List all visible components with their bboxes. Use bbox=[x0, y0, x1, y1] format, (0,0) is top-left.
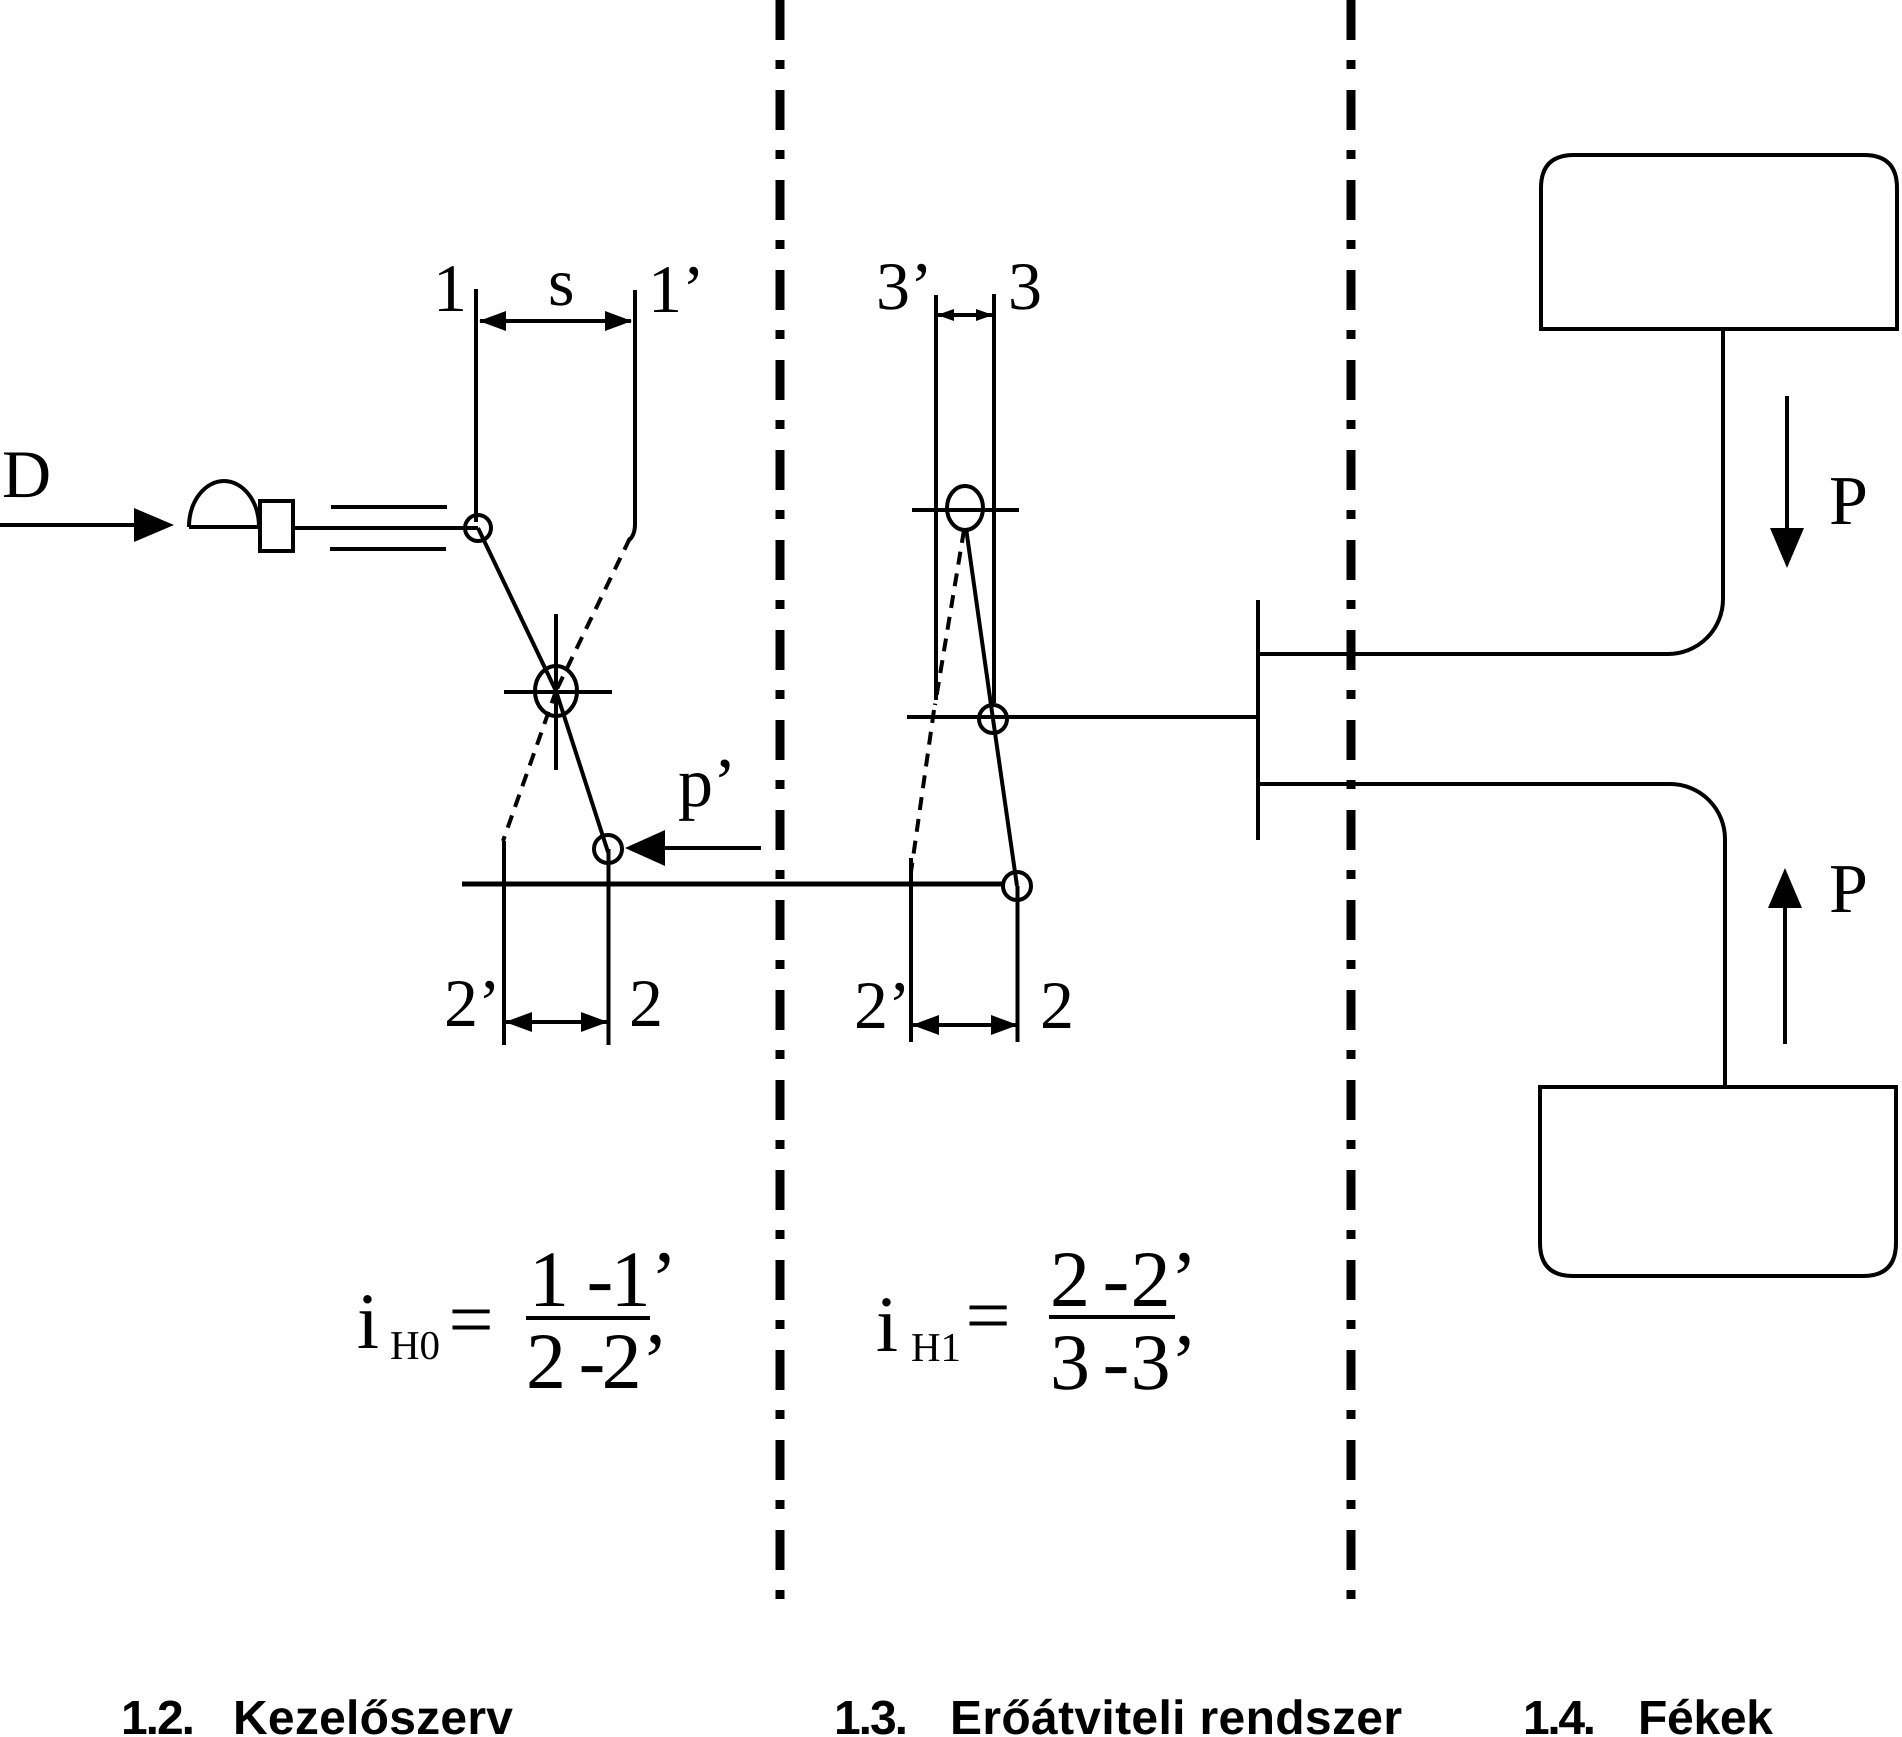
svg-text:P: P bbox=[1829, 851, 1868, 928]
svg-text:3: 3 bbox=[1050, 1319, 1090, 1407]
svg-text:3’: 3’ bbox=[1131, 1319, 1198, 1407]
push rod bbox=[294, 526, 478, 530]
svg-text:D: D bbox=[2, 436, 51, 512]
svg-text:i: i bbox=[357, 1278, 379, 1366]
caption 1.4. Fekek bbox=[1523, 1692, 1773, 1737]
svg-text:2’: 2’ bbox=[602, 1318, 669, 1406]
lower pivot circle bbox=[594, 835, 622, 863]
svg-text:2’: 2’ bbox=[1131, 1236, 1198, 1324]
svg-text:Erőátviteli rendszer: Erőátviteli rendszer bbox=[950, 1692, 1402, 1737]
svg-text:2’: 2’ bbox=[444, 965, 501, 1041]
svg-text:-: - bbox=[587, 1236, 614, 1324]
svg-text:s: s bbox=[548, 244, 574, 320]
pivot circle at rod end bbox=[465, 515, 491, 541]
caption 1.3. Eroatviteli rendszer bbox=[834, 1692, 1402, 1737]
bottom brake shoe bbox=[1540, 1087, 1896, 1276]
svg-text:1: 1 bbox=[433, 250, 467, 326]
svg-text:1: 1 bbox=[529, 1236, 569, 1324]
dimension arrow 2'-2 (left) bbox=[506, 1020, 607, 1024]
axle top arm bbox=[1258, 329, 1723, 654]
svg-text:1.4.: 1.4. bbox=[1523, 1692, 1596, 1737]
section divider 2 (dash-dot) bbox=[1347, 0, 1356, 1605]
axle bracket vertical bbox=[1256, 600, 1260, 840]
input force arrow D bbox=[0, 523, 138, 527]
fork upper line bbox=[331, 505, 447, 509]
formula i_H0 bbox=[357, 1236, 677, 1406]
pedal block bbox=[260, 501, 293, 551]
node 2 vertical line (left section) bbox=[607, 849, 611, 1045]
lever solid upper arm bbox=[478, 528, 556, 691]
formula i_H0 fraction bar bbox=[526, 1316, 650, 1320]
middle lever dashed lower arm bbox=[911, 710, 934, 872]
svg-text:2: 2 bbox=[526, 1318, 566, 1406]
svg-text:1’: 1’ bbox=[648, 251, 705, 327]
svg-text:2: 2 bbox=[1040, 967, 1074, 1043]
middle lever solid lower arm bbox=[993, 719, 1017, 886]
brake force arrow P (bottom, up) bbox=[1783, 906, 1787, 1044]
node 2 vertical line (middle section) bbox=[1016, 886, 1020, 1042]
node 2' vertical line (middle section) bbox=[909, 858, 913, 1042]
node 1' vertical line bbox=[628, 290, 635, 541]
node 1 vertical line bbox=[474, 289, 478, 522]
pedal base chord bbox=[189, 525, 259, 529]
axle bottom arm bbox=[1258, 784, 1725, 1087]
svg-text:1.3.: 1.3. bbox=[834, 1692, 908, 1737]
svg-text:1’: 1’ bbox=[611, 1236, 678, 1324]
dimension arrow s (1 to 1') bbox=[480, 319, 631, 323]
top brake shoe bbox=[1541, 155, 1897, 329]
lever dashed lower arm (position 2') bbox=[503, 691, 556, 841]
top pivot horizontal crosshair bbox=[912, 508, 1019, 512]
node 3 vertical line bbox=[992, 294, 996, 703]
section divider 1 (dash-dot) bbox=[776, 0, 785, 1600]
svg-text:H0: H0 bbox=[390, 1322, 440, 1368]
svg-text:3’: 3’ bbox=[876, 248, 933, 324]
svg-text:1.2.: 1.2. bbox=[121, 1692, 195, 1737]
svg-text:Kezelőszerv: Kezelőszerv bbox=[233, 1692, 513, 1737]
svg-text:=: = bbox=[965, 1272, 1010, 1360]
brake force arrow P (top, down) bbox=[1785, 396, 1789, 530]
svg-text:=: = bbox=[448, 1276, 493, 1364]
svg-text:Fékek: Fékek bbox=[1638, 1692, 1773, 1737]
middle lever top pivot circle bbox=[947, 486, 983, 530]
dimension arrow 2'-2 (middle) bbox=[913, 1023, 1017, 1027]
lever dashed upper arm (position 1') bbox=[556, 538, 630, 691]
middle bottom pivot circle bbox=[1003, 872, 1031, 900]
svg-text:i: i bbox=[876, 1281, 898, 1369]
svg-text:2: 2 bbox=[1050, 1236, 1090, 1324]
middle link horizontal rod to axle bbox=[907, 715, 1258, 719]
force arrow p' bbox=[661, 846, 761, 850]
long horizontal reaction bar bbox=[462, 882, 1005, 887]
svg-text:2’: 2’ bbox=[854, 967, 911, 1043]
svg-text:3: 3 bbox=[1008, 248, 1042, 324]
middle link circle bbox=[979, 705, 1007, 733]
fulcrum horizontal crosshair bbox=[504, 690, 612, 694]
node 2' vertical line (left section) bbox=[502, 841, 506, 1045]
fulcrum vertical crosshair bbox=[554, 614, 558, 770]
middle lever dashed upper arm bbox=[935, 530, 964, 705]
lever solid lower arm bbox=[556, 691, 608, 852]
formula i_H1 bbox=[876, 1236, 1197, 1407]
node 3' vertical line bbox=[934, 295, 938, 700]
fork lower line bbox=[330, 547, 446, 551]
pedal pad (dome) bbox=[189, 481, 259, 527]
svg-text:p’: p’ bbox=[678, 745, 736, 822]
main fulcrum circle bbox=[535, 666, 577, 716]
formula i_H1 fraction bar bbox=[1049, 1315, 1175, 1319]
svg-text:2: 2 bbox=[629, 965, 663, 1041]
caption 1.2. Kezeloszerv bbox=[121, 1692, 513, 1737]
svg-text:-: - bbox=[1103, 1319, 1130, 1407]
svg-text:H1: H1 bbox=[911, 1324, 961, 1370]
svg-text:-: - bbox=[1103, 1236, 1130, 1324]
dimension arrow 3'-3 bbox=[938, 313, 992, 317]
svg-text:P: P bbox=[1829, 463, 1868, 540]
middle lever solid upper arm bbox=[966, 528, 993, 719]
